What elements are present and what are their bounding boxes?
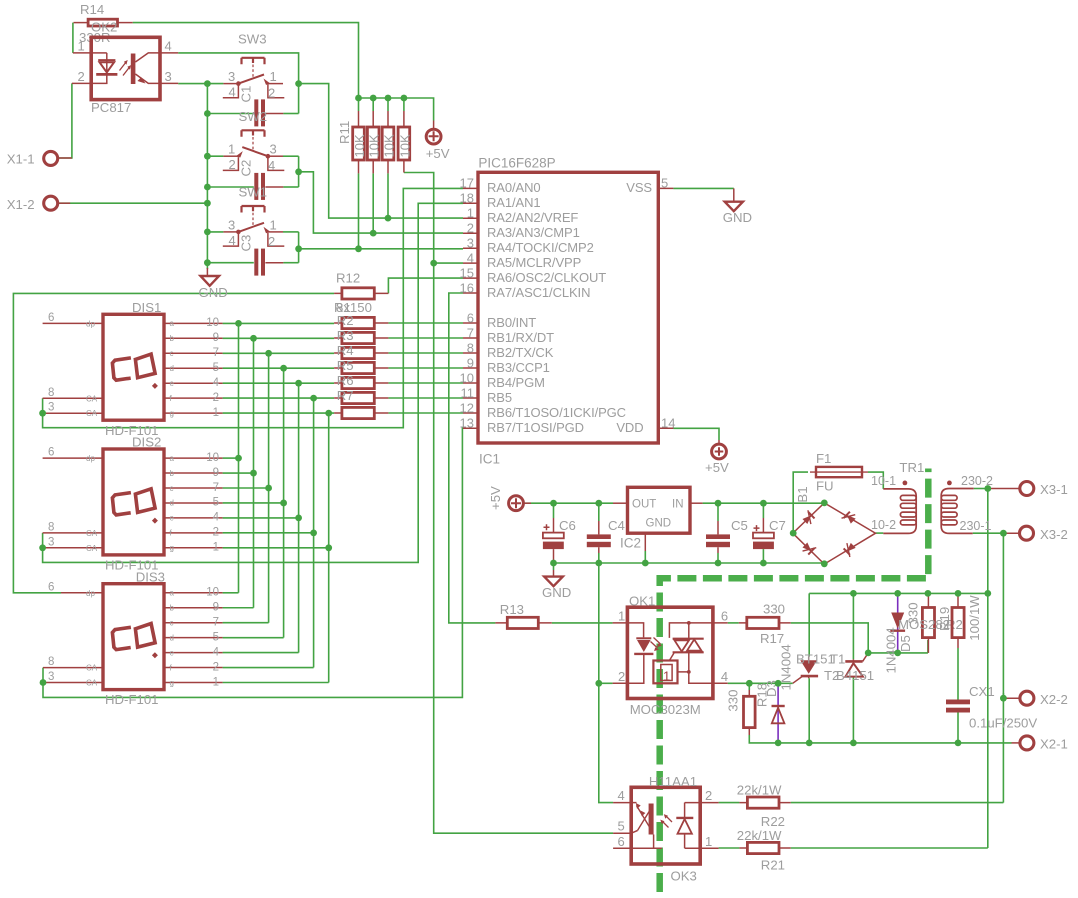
svg-text:6: 6 (467, 310, 474, 325)
fuse F1 (810, 451, 868, 493)
junction (204, 153, 211, 160)
wire X1-2 to switch rail (57, 202, 208, 204)
svg-text:5: 5 (618, 819, 625, 834)
svg-text:c: c (170, 619, 174, 628)
wire DIS2 segment stubs to bus (223, 458, 329, 548)
svg-text:2: 2 (78, 69, 85, 84)
junction (235, 455, 242, 462)
junction (550, 500, 557, 507)
ground symbol below C6 (542, 570, 571, 600)
svg-text:X2-2: X2-2 (1040, 692, 1068, 707)
wire C4 stubs (598, 503, 600, 563)
svg-text:OUT: OUT (632, 499, 656, 511)
svg-text:R14: R14 (80, 2, 104, 17)
svg-text:a: a (170, 454, 175, 463)
wire net GND to OK1 pin2 and OK3 pin4 (599, 563, 613, 803)
junction (715, 560, 722, 567)
junction (250, 335, 257, 342)
svg-text:4: 4 (229, 233, 236, 248)
wire T2 gate to D5/R19 (868, 652, 928, 654)
wire SW2 to IC1 RA3 (299, 172, 463, 233)
svg-text:1: 1 (705, 834, 712, 849)
junction (370, 95, 377, 102)
junction (775, 680, 782, 687)
connector X2-2 (1003, 691, 1067, 707)
svg-text:10: 10 (206, 452, 219, 464)
junction (325, 410, 332, 417)
regulator IC2 (613, 487, 703, 551)
wire net 230-1/X3-2 vertical (1002, 533, 1004, 802)
resistor R14 (74, 2, 133, 45)
svg-text:D5: D5 (898, 635, 913, 652)
svg-text:10: 10 (206, 317, 219, 329)
junction (204, 80, 211, 87)
resistor R17 (739, 602, 791, 646)
wire SW3 to IC1 RA2 (299, 84, 463, 219)
junction (1000, 695, 1007, 702)
svg-text:c: c (170, 484, 174, 493)
svg-text:d: d (170, 364, 174, 373)
svg-text:4: 4 (467, 250, 474, 265)
capacitor C7 (electrolytic) (753, 518, 786, 549)
ground symbol below switches (199, 268, 228, 300)
svg-text:100/1W: 100/1W (967, 595, 982, 641)
junction (850, 590, 857, 597)
svg-text:FU: FU (816, 478, 834, 493)
wire net R14 to R11 bus (133, 23, 359, 98)
svg-text:B1: B1 (795, 486, 810, 502)
svg-text:GND: GND (199, 285, 228, 300)
+5V symbol at regulator output (488, 486, 531, 511)
junction (894, 590, 901, 597)
thyristor T1 BT151 (793, 652, 846, 684)
svg-text:g: g (170, 544, 174, 553)
junction (250, 470, 257, 477)
wire SW1 right rail (298, 232, 300, 263)
svg-text:C7: C7 (769, 518, 786, 533)
capacitor C4 (587, 518, 625, 553)
svg-text:7: 7 (213, 347, 219, 359)
junction (955, 740, 962, 747)
svg-text:R17: R17 (760, 631, 784, 646)
svg-text:R21: R21 (761, 858, 785, 873)
capacitor C1 (207, 86, 298, 127)
wire DIS1 segment rows to R12 (223, 323, 335, 413)
junction (715, 500, 722, 507)
svg-text:d: d (170, 499, 174, 508)
svg-text:GND: GND (646, 517, 672, 529)
svg-text:T1: T1 (830, 652, 845, 667)
display DIS3 HD-F101 (43, 569, 223, 707)
+5V symbol at VDD (705, 440, 729, 475)
ground symbol at VSS (723, 188, 752, 224)
wire fuse right to TR1 primary top (868, 472, 883, 489)
svg-text:e: e (170, 379, 175, 388)
connector X2-1 (1012, 736, 1068, 752)
svg-text:4: 4 (213, 512, 220, 524)
wire R17 to T2 gate node (791, 623, 869, 653)
wire C6 stubs (553, 503, 555, 570)
wire +5V rail to IC2 OUT (531, 502, 613, 504)
optocoupler OK2 PC817 (72, 37, 178, 115)
capacitor C5 (706, 518, 748, 553)
junction (39, 410, 46, 417)
svg-text:PIC16F628P: PIC16F628P (478, 156, 555, 171)
wire T2 column (852, 593, 854, 743)
svg-text:CA: CA (86, 679, 98, 688)
svg-text:15: 15 (460, 265, 474, 280)
junction (806, 740, 813, 747)
svg-text:1: 1 (467, 206, 474, 221)
optocoupler OK3 H11AA1 (613, 774, 719, 884)
wire VDD to +5V (673, 428, 719, 440)
svg-text:RB5: RB5 (487, 390, 512, 405)
svg-text:17: 17 (460, 176, 474, 191)
svg-text:GND: GND (723, 210, 752, 225)
svg-text:CA: CA (86, 394, 98, 403)
junction (385, 95, 392, 102)
resistor R22 (737, 783, 791, 829)
svg-text:1: 1 (663, 669, 670, 684)
svg-text:g: g (170, 678, 174, 687)
junction (821, 500, 828, 507)
svg-text:230-1: 230-1 (960, 519, 992, 533)
svg-text:1: 1 (270, 217, 277, 232)
svg-text:dp: dp (86, 454, 95, 463)
svg-text:+5V: +5V (488, 486, 503, 510)
junction (355, 95, 362, 102)
switch SW1 (207, 185, 298, 249)
svg-text:CA: CA (86, 529, 98, 538)
junction (401, 95, 408, 102)
junction (821, 560, 828, 567)
wire R18 top (748, 683, 750, 690)
wire R11a to RA4 row (358, 173, 360, 248)
junction (295, 168, 302, 175)
svg-text:dp: dp (86, 589, 95, 598)
wire +5V left stub (524, 502, 531, 504)
junction (265, 350, 272, 357)
svg-text:1: 1 (78, 39, 85, 54)
svg-text:R13: R13 (500, 602, 524, 617)
svg-text:c: c (170, 349, 174, 358)
svg-text:RA1/AN1: RA1/AN1 (487, 195, 541, 210)
junction (850, 740, 857, 747)
junction (295, 80, 302, 87)
wire net RA1 to DIS2 CA (43, 203, 463, 562)
svg-text:X2-1: X2-1 (1040, 737, 1068, 752)
svg-text:10K: 10K (352, 134, 367, 157)
svg-text:10: 10 (460, 370, 474, 385)
wire X2-2 to 230-1 net (1002, 693, 1004, 698)
junction (894, 650, 901, 657)
svg-text:1: 1 (213, 407, 219, 419)
display DIS2 HD-F101 (43, 435, 223, 573)
junction (204, 259, 211, 266)
svg-text:9: 9 (213, 467, 219, 479)
svg-text:b: b (170, 334, 175, 343)
wire DIS3 segment stubs to bus (223, 593, 329, 683)
wire IC2 IN rail to bridge (703, 502, 825, 504)
svg-text:RA0/AN0: RA0/AN0 (487, 180, 541, 195)
resistor network R11 (4x 10K) (337, 98, 412, 173)
wire GND rail (554, 563, 825, 564)
svg-text:dp: dp (86, 319, 95, 328)
junction (280, 500, 287, 507)
svg-text:R3: R3 (337, 328, 354, 343)
junction (430, 260, 437, 267)
svg-text:CA: CA (86, 409, 98, 418)
svg-text:TR1: TR1 (899, 460, 924, 475)
junction (310, 529, 317, 536)
junction (550, 560, 557, 567)
svg-text:RB4/PGM: RB4/PGM (487, 375, 545, 390)
resistor R21 (737, 828, 791, 873)
svg-text:8: 8 (48, 387, 54, 399)
svg-text:RA2/AN2/VREF: RA2/AN2/VREF (487, 210, 578, 225)
junction (1000, 530, 1007, 537)
svg-text:2: 2 (229, 157, 236, 172)
junction (984, 485, 991, 492)
svg-text:3: 3 (48, 536, 54, 548)
wire PC817 pin2 to X1-1 (58, 83, 72, 158)
svg-text:e: e (170, 648, 175, 657)
svg-text:2: 2 (268, 234, 275, 249)
wire PC817 pin4 to SW3 right rail (178, 53, 298, 114)
junction (39, 544, 46, 551)
bridge rectifier B1 (793, 486, 876, 564)
svg-text:R12: R12 (336, 270, 360, 285)
wire R22 to 230-1 net (719, 802, 1004, 804)
svg-text:RA5/MCLR/VPP: RA5/MCLR/VPP (487, 255, 581, 270)
junction (865, 650, 872, 657)
svg-text:RA3/AN3/CMP1: RA3/AN3/CMP1 (487, 225, 580, 240)
junction (295, 515, 302, 522)
junction (746, 680, 753, 687)
diode D5 1N4004 (884, 595, 914, 674)
junction (370, 230, 377, 237)
connector X1-2 (7, 196, 70, 212)
svg-text:H11AA1: H11AA1 (649, 774, 697, 789)
svg-text:DIS3: DIS3 (136, 569, 165, 584)
junction (595, 680, 602, 687)
svg-text:7: 7 (213, 482, 219, 494)
svg-text:SW2: SW2 (239, 109, 268, 124)
svg-text:R4: R4 (337, 343, 354, 358)
svg-text:3: 3 (228, 217, 235, 232)
svg-text:4: 4 (165, 39, 172, 54)
resistor network R12 (8x150) (334, 270, 388, 418)
svg-text:RB2/TX/CK: RB2/TX/CK (487, 345, 554, 360)
svg-text:2: 2 (467, 221, 474, 236)
svg-text:2: 2 (213, 661, 219, 673)
wire bottom rail X2-1 (749, 735, 1011, 743)
svg-text:RB0/INT: RB0/INT (487, 315, 536, 330)
junction (984, 590, 991, 597)
svg-text:4: 4 (721, 669, 728, 684)
wire T1 column (808, 593, 810, 743)
svg-text:6: 6 (721, 609, 728, 624)
svg-text:6: 6 (48, 581, 54, 593)
connector X3-1 (988, 482, 1068, 498)
svg-text:OK3: OK3 (671, 869, 697, 884)
svg-text:C3: C3 (239, 235, 254, 252)
svg-text:e: e (170, 514, 175, 523)
svg-text:9: 9 (213, 602, 219, 614)
svg-text:2: 2 (705, 788, 712, 803)
optotriac OK1 MOC3023M (613, 594, 729, 718)
svg-text:6: 6 (48, 312, 54, 324)
svg-text:10-1: 10-1 (871, 474, 896, 488)
svg-text:2: 2 (213, 527, 219, 539)
svg-text:1: 1 (228, 142, 235, 157)
svg-text:3: 3 (48, 671, 54, 683)
wire fuse left to bridge AC1 (793, 472, 808, 533)
junction (385, 215, 392, 222)
wire net RA0 to DIS1 CA (43, 188, 463, 427)
svg-text:16: 16 (460, 280, 474, 295)
resistor R19 (898, 593, 963, 653)
svg-text:VDD: VDD (616, 420, 643, 435)
svg-text:CA: CA (86, 544, 98, 553)
capacitor C6 (electrolytic) (543, 518, 576, 563)
svg-text:22k/1W: 22k/1W (737, 828, 782, 843)
wire C5 stubs (717, 503, 719, 563)
junction (955, 590, 962, 597)
junction (595, 560, 602, 567)
junction (235, 320, 242, 327)
wire VSS to GND (673, 187, 733, 189)
svg-text:330: 330 (763, 602, 785, 617)
svg-text:X1-2: X1-2 (7, 197, 35, 212)
svg-text:HD-F101: HD-F101 (105, 692, 159, 707)
diode D3 1N4004 (764, 644, 794, 743)
svg-text:330: 330 (725, 690, 740, 712)
svg-text:SW1: SW1 (239, 185, 268, 200)
svg-text:F1: F1 (816, 451, 831, 466)
capacitor C3 (207, 235, 298, 276)
svg-text:R6: R6 (337, 373, 354, 388)
wire R14 left to PC817 pin1 (72, 23, 74, 53)
wire PC817 pin3 to SW3 (178, 83, 223, 85)
wire RA5 row (434, 262, 463, 264)
junction (760, 560, 767, 567)
svg-text:C4: C4 (608, 518, 625, 533)
wire net RA7 to R13 (449, 293, 496, 623)
svg-text:0.1uF/250V: 0.1uF/250V (969, 716, 1037, 731)
svg-text:RA7/ASC1/CLKIN: RA7/ASC1/CLKIN (487, 285, 590, 300)
svg-text:3: 3 (467, 236, 474, 251)
svg-text:18: 18 (460, 191, 474, 206)
svg-text:2: 2 (618, 669, 625, 684)
svg-text:8: 8 (48, 656, 54, 668)
junction (280, 365, 287, 372)
svg-text:10: 10 (206, 587, 219, 599)
svg-text:b: b (170, 604, 175, 613)
connector X3-2 (1003, 526, 1067, 542)
svg-text:C5: C5 (731, 518, 748, 533)
svg-text:4: 4 (213, 646, 220, 658)
svg-text:9: 9 (467, 355, 474, 370)
svg-text:SW3: SW3 (238, 32, 267, 47)
svg-text:10K: 10K (397, 134, 412, 157)
svg-text:R7: R7 (337, 388, 354, 403)
wire R13 to OK1 pin1 (552, 622, 613, 624)
wire 100R snubber to CX1 (957, 648, 959, 700)
svg-text:3: 3 (228, 69, 235, 84)
svg-text:VSS: VSS (626, 180, 652, 195)
svg-text:CX1: CX1 (969, 684, 995, 699)
svg-text:5: 5 (213, 362, 219, 374)
svg-text:X1-1: X1-1 (7, 152, 35, 167)
junction (642, 560, 649, 567)
svg-text:5: 5 (213, 497, 219, 509)
svg-text:4: 4 (268, 158, 275, 173)
wire R21 to 230-2 net (719, 847, 988, 849)
junction (265, 485, 272, 492)
wire switch left rail (206, 84, 208, 269)
svg-text:R11: R11 (337, 121, 352, 144)
connector X1-1 (7, 151, 72, 166)
wire R11 top bus to +5V (359, 98, 434, 121)
resistor R18 (725, 683, 769, 735)
svg-text:7: 7 (213, 617, 219, 629)
junction (925, 590, 932, 597)
thyristor T2 BT151 (824, 653, 874, 683)
junction (204, 200, 211, 207)
svg-text:22k/1W: 22k/1W (737, 783, 782, 798)
wire net R12 first resistor to DIS3 dp (13, 293, 334, 592)
svg-text:B4151: B4151 (836, 668, 874, 683)
junction (595, 500, 602, 507)
junction (295, 380, 302, 387)
svg-text:IN: IN (672, 499, 684, 511)
svg-text:13: 13 (460, 416, 474, 431)
junction (355, 245, 362, 252)
svg-text:C2: C2 (239, 160, 254, 177)
svg-text:+5V: +5V (705, 460, 729, 475)
svg-text:IC2: IC2 (620, 536, 641, 551)
svg-text:RA6/OSC2/CLKOUT: RA6/OSC2/CLKOUT (487, 270, 606, 285)
svg-text:6: 6 (618, 834, 625, 849)
svg-text:X3-1: X3-1 (1040, 482, 1068, 497)
svg-text:RA4/TOCKI/CMP2: RA4/TOCKI/CMP2 (487, 240, 594, 255)
wire bridge AC2 to TR1 primary bottom (876, 532, 884, 534)
svg-text:GND: GND (542, 585, 571, 600)
svg-text:DIS2: DIS2 (132, 435, 161, 450)
svg-text:PC817: PC817 (91, 100, 131, 115)
IC IC1 PIC16F628P (460, 156, 676, 467)
+5V symbol near R11 (426, 121, 450, 162)
wire TR1 secondary top to X3-1 net (974, 488, 988, 490)
svg-text:OK1: OK1 (629, 594, 655, 609)
wire R19 bottom corner (927, 640, 929, 653)
svg-text:C6: C6 (559, 518, 576, 533)
junction (760, 500, 767, 507)
svg-text:MOC3023M: MOC3023M (630, 702, 701, 717)
svg-text:4: 4 (618, 788, 625, 803)
svg-text:C1: C1 (239, 86, 254, 103)
wire mains top rail (809, 592, 988, 594)
svg-text:12: 12 (460, 400, 474, 415)
svg-text:3: 3 (48, 402, 54, 414)
wire OK1 pin6 to R17 (728, 622, 739, 624)
wire OK1 pin4 gate row (728, 682, 793, 684)
svg-text:6: 6 (48, 447, 54, 459)
svg-text:CA: CA (86, 664, 98, 673)
svg-text:11: 11 (461, 385, 475, 400)
svg-text:R2: R2 (337, 313, 354, 328)
